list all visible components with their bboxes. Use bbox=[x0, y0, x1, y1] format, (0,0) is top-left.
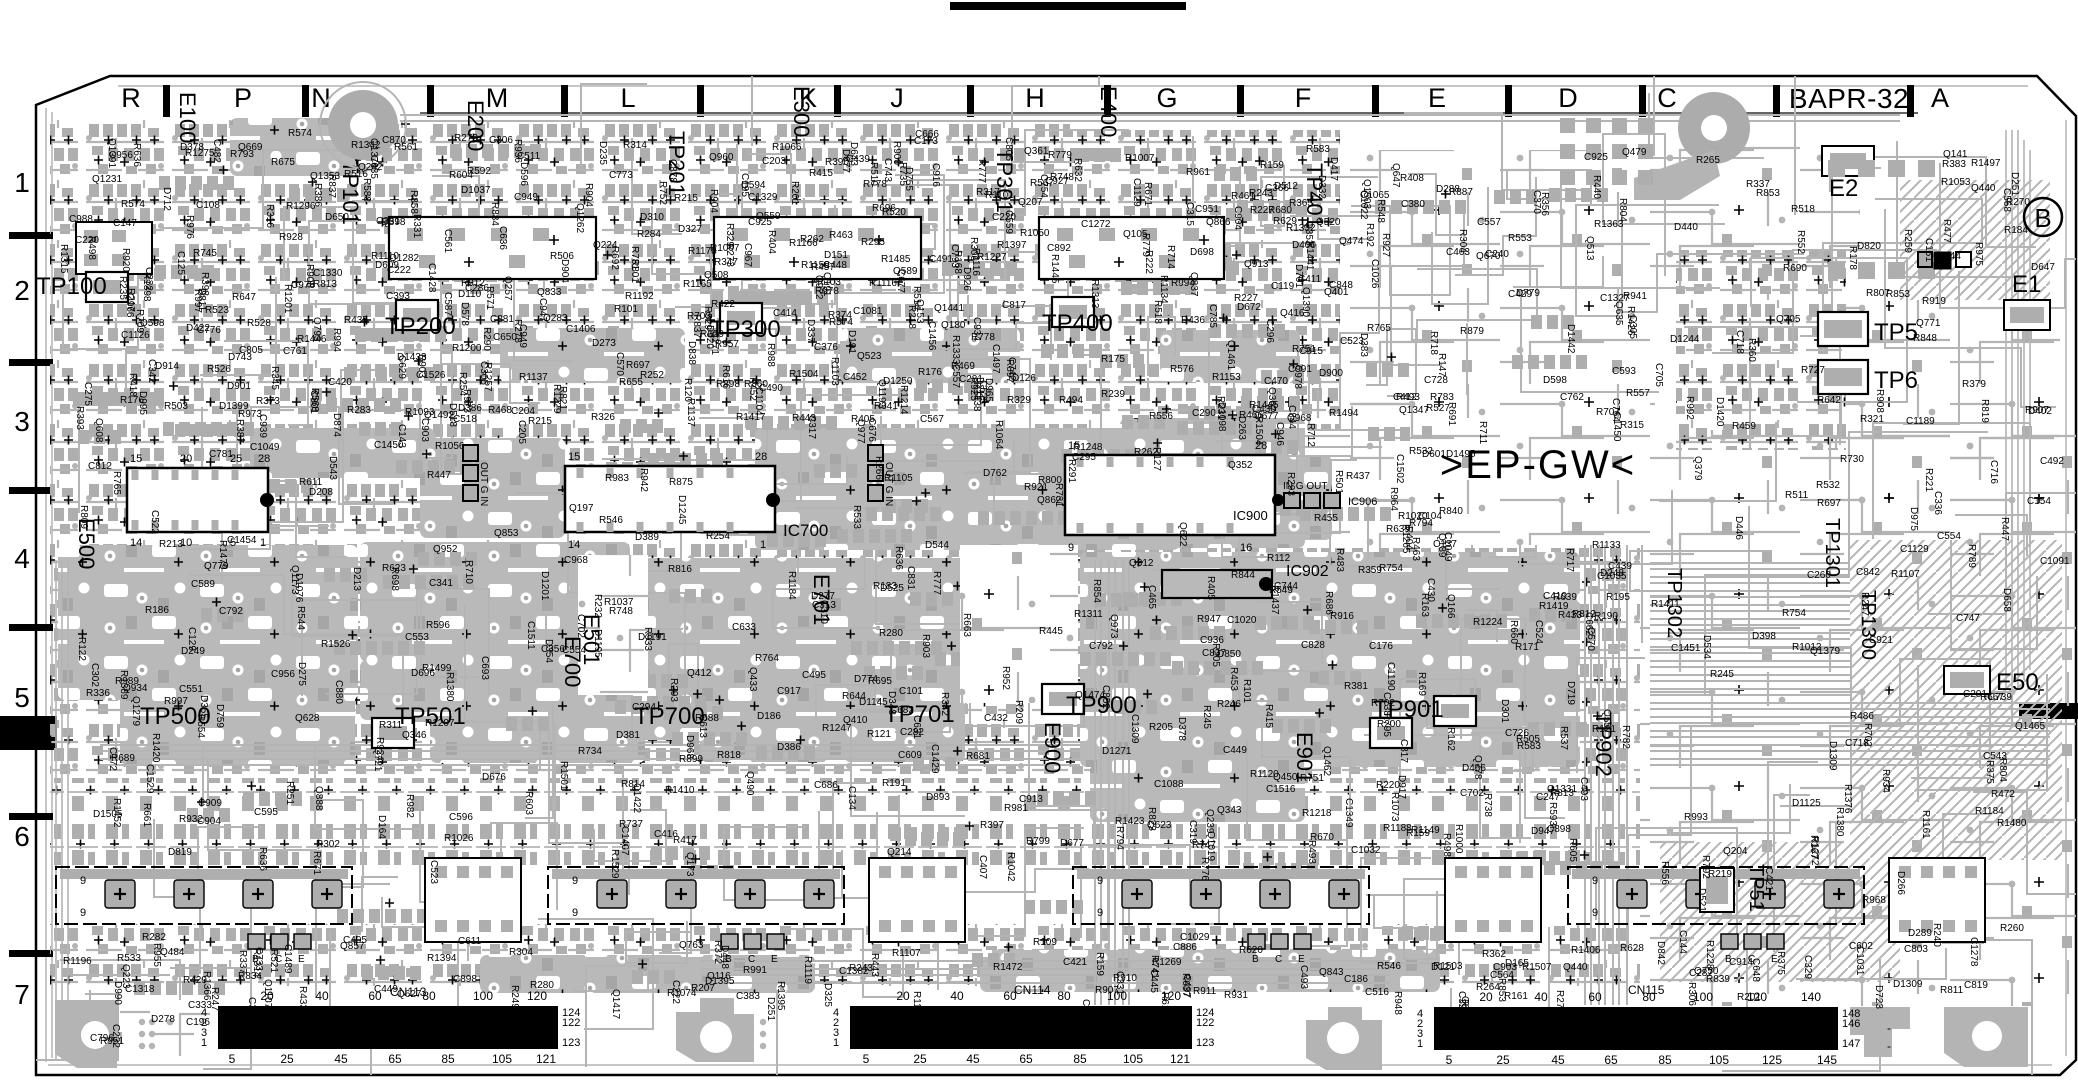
svg-text:R574: R574 bbox=[288, 128, 312, 139]
svg-text:R556: R556 bbox=[1149, 411, 1173, 422]
svg-text:R259: R259 bbox=[1902, 229, 1913, 253]
svg-text:R928: R928 bbox=[279, 232, 303, 243]
svg-text:C1309: C1309 bbox=[1129, 714, 1140, 744]
svg-text:R1452: R1452 bbox=[111, 798, 122, 828]
svg-text:R1134: R1134 bbox=[1158, 275, 1169, 304]
svg-text:D990: D990 bbox=[112, 981, 123, 1005]
svg-text:R374: R374 bbox=[828, 310, 852, 321]
svg-text:C518: C518 bbox=[453, 414, 477, 425]
svg-text:R714: R714 bbox=[1165, 245, 1176, 269]
svg-text:Q763: Q763 bbox=[679, 940, 704, 951]
svg-text:D534: D534 bbox=[1701, 635, 1712, 659]
svg-text:R282: R282 bbox=[142, 932, 166, 943]
svg-text:R1201: R1201 bbox=[282, 284, 293, 314]
svg-text:125: 125 bbox=[1762, 1053, 1782, 1067]
svg-text:R477: R477 bbox=[1941, 219, 1952, 243]
svg-text:C1065: C1065 bbox=[1360, 190, 1390, 201]
svg-text:C554: C554 bbox=[562, 645, 586, 656]
svg-text:D1245: D1245 bbox=[676, 495, 687, 525]
svg-text:C493: C493 bbox=[1578, 777, 1589, 801]
test point TP5 bbox=[1818, 312, 1868, 346]
svg-text:R819: R819 bbox=[1979, 399, 1990, 423]
svg-text:R1497: R1497 bbox=[1971, 158, 2001, 169]
svg-text:C108: C108 bbox=[196, 200, 220, 211]
svg-text:Q622: Q622 bbox=[1177, 522, 1188, 547]
svg-text:C380: C380 bbox=[1401, 199, 1425, 210]
svg-text:C296: C296 bbox=[1264, 319, 1275, 343]
svg-text:Q312: Q312 bbox=[1129, 558, 1154, 569]
svg-text:C702: C702 bbox=[1460, 788, 1484, 799]
svg-text:C848: C848 bbox=[1329, 280, 1353, 291]
svg-text:D1076: D1076 bbox=[293, 573, 304, 603]
svg-text:R375: R375 bbox=[1984, 760, 1995, 784]
svg-text:C793: C793 bbox=[949, 244, 960, 268]
svg-text:R1119: R1119 bbox=[802, 956, 813, 984]
svg-text:C988: C988 bbox=[69, 214, 93, 225]
svg-text:R190: R190 bbox=[1594, 611, 1618, 622]
svg-text:C914: C914 bbox=[1729, 957, 1753, 968]
svg-text:R493: R493 bbox=[1306, 840, 1317, 864]
svg-text:R260: R260 bbox=[2000, 923, 2024, 934]
test point TP400 bbox=[1052, 297, 1094, 327]
svg-text:C812: C812 bbox=[88, 461, 112, 472]
svg-text:C1091: C1091 bbox=[2040, 556, 2070, 567]
svg-text:C201: C201 bbox=[1963, 689, 1987, 700]
svg-text:R1064: R1064 bbox=[993, 420, 1004, 450]
svg-text:R418: R418 bbox=[127, 373, 138, 397]
svg-text:R1000: R1000 bbox=[1453, 824, 1464, 854]
pad array top D area bbox=[1560, 118, 1575, 133]
svg-text:20: 20 bbox=[180, 453, 192, 465]
svg-text:C137: C137 bbox=[1433, 539, 1457, 550]
svg-text:C596: C596 bbox=[449, 812, 473, 823]
svg-text:R799: R799 bbox=[1026, 836, 1050, 847]
svg-text:Q490: Q490 bbox=[744, 771, 755, 796]
svg-text:Q105: Q105 bbox=[1123, 229, 1148, 240]
mounting hole top right bbox=[1678, 92, 1750, 164]
svg-text:R415: R415 bbox=[1263, 704, 1274, 728]
svg-text:R1192: R1192 bbox=[625, 291, 654, 302]
svg-text:R751: R751 bbox=[1292, 344, 1316, 355]
svg-text:D598: D598 bbox=[1543, 375, 1567, 386]
svg-text:R839: R839 bbox=[1706, 974, 1730, 985]
svg-text:R908: R908 bbox=[1874, 389, 1885, 413]
svg-text:C203: C203 bbox=[762, 156, 786, 167]
svg-text:R345: R345 bbox=[269, 366, 280, 390]
svg-text:40: 40 bbox=[1534, 990, 1548, 1004]
svg-text:M: M bbox=[486, 83, 509, 113]
svg-text:R994: R994 bbox=[1171, 278, 1195, 289]
svg-text:C648: C648 bbox=[1750, 958, 1761, 982]
svg-text:R879: R879 bbox=[1460, 326, 1484, 337]
svg-text:R942: R942 bbox=[638, 468, 649, 492]
svg-text:D337: D337 bbox=[805, 319, 816, 343]
svg-text:D446: D446 bbox=[1733, 516, 1744, 540]
svg-text:C1278: C1278 bbox=[1968, 937, 1979, 967]
svg-text:C1489: C1489 bbox=[282, 944, 293, 974]
svg-text:C898: C898 bbox=[1547, 824, 1571, 835]
svg-text:C176: C176 bbox=[1369, 641, 1393, 652]
svg-text:Q224: Q224 bbox=[593, 240, 618, 251]
svg-text:R903: R903 bbox=[920, 634, 931, 658]
right edge tab bbox=[2019, 703, 2078, 719]
svg-text:R101: R101 bbox=[1241, 679, 1252, 703]
svg-text:R981: R981 bbox=[1004, 803, 1028, 814]
svg-text:C445: C445 bbox=[1148, 969, 1159, 993]
svg-text:C119: C119 bbox=[1271, 281, 1295, 292]
svg-text:C516: C516 bbox=[1365, 987, 1389, 998]
svg-text:R1315: R1315 bbox=[58, 244, 69, 274]
svg-text:D900: D900 bbox=[1319, 368, 1343, 379]
svg-text:R1107: R1107 bbox=[892, 948, 921, 959]
svg-text:R533: R533 bbox=[851, 505, 862, 529]
svg-text:R952: R952 bbox=[1000, 666, 1011, 690]
svg-text:C1511: C1511 bbox=[525, 621, 536, 650]
svg-text:R501: R501 bbox=[1333, 470, 1344, 494]
top bus line bbox=[420, 112, 1918, 114]
svg-text:R1342: R1342 bbox=[351, 140, 381, 151]
svg-text:R1275: R1275 bbox=[185, 148, 215, 159]
svg-text:D712: D712 bbox=[161, 187, 172, 211]
svg-text:D1125: D1125 bbox=[1792, 798, 1821, 809]
svg-text:R751: R751 bbox=[1300, 773, 1324, 784]
svg-text:R973: R973 bbox=[461, 389, 472, 413]
svg-text:R807: R807 bbox=[1866, 288, 1890, 299]
svg-text:E: E bbox=[1298, 954, 1305, 965]
svg-text:C317: C317 bbox=[1398, 739, 1409, 763]
svg-text:Q888: Q888 bbox=[313, 786, 324, 811]
svg-text:1: 1 bbox=[14, 167, 30, 198]
svg-text:C1429: C1429 bbox=[929, 744, 940, 774]
svg-text:D354: D354 bbox=[543, 639, 554, 663]
svg-text:9: 9 bbox=[1068, 542, 1074, 554]
svg-text:C205: C205 bbox=[516, 420, 527, 444]
svg-text:105: 105 bbox=[492, 1052, 512, 1066]
svg-text:D914: D914 bbox=[155, 361, 179, 372]
svg-text:R245: R245 bbox=[1201, 705, 1212, 729]
svg-text:Q771: Q771 bbox=[1916, 318, 1941, 329]
svg-text:R1313: R1313 bbox=[1089, 279, 1100, 309]
svg-text:R1214: R1214 bbox=[898, 385, 909, 415]
svg-text:Q1417: Q1417 bbox=[610, 989, 621, 1019]
svg-text:R647: R647 bbox=[232, 292, 256, 303]
svg-text:C1129: C1129 bbox=[1900, 544, 1929, 555]
svg-text:1: 1 bbox=[260, 537, 266, 549]
svg-text:D440: D440 bbox=[1674, 222, 1698, 233]
svg-text:Q346: Q346 bbox=[402, 730, 427, 741]
svg-text:R1380: R1380 bbox=[444, 672, 455, 702]
svg-text:R712: R712 bbox=[1305, 423, 1316, 447]
svg-text:C1428: C1428 bbox=[426, 263, 437, 293]
svg-text:Q1019: Q1019 bbox=[1205, 831, 1216, 861]
svg-text:C792: C792 bbox=[219, 606, 243, 617]
svg-text:C315: C315 bbox=[1184, 202, 1195, 226]
svg-text:D544: D544 bbox=[925, 540, 949, 551]
svg-text:C341: C341 bbox=[429, 578, 453, 589]
svg-text:R660: R660 bbox=[1508, 620, 1519, 644]
svg-text:D301: D301 bbox=[1499, 699, 1510, 723]
svg-text:R1153: R1153 bbox=[1212, 372, 1241, 383]
svg-text:D332: D332 bbox=[1316, 175, 1327, 199]
svg-text:R315: R315 bbox=[1620, 420, 1644, 431]
svg-text:C302: C302 bbox=[89, 663, 100, 687]
svg-text:C682: C682 bbox=[890, 705, 914, 716]
svg-text:C: C bbox=[1657, 83, 1677, 113]
svg-text:C522: C522 bbox=[149, 510, 160, 534]
svg-text:R186: R186 bbox=[145, 605, 169, 616]
svg-text:R934: R934 bbox=[1880, 769, 1891, 793]
svg-text:R1149: R1149 bbox=[1411, 825, 1440, 836]
svg-text:R373: R373 bbox=[256, 396, 280, 407]
svg-text:R618: R618 bbox=[1159, 992, 1170, 1016]
svg-text:15: 15 bbox=[568, 451, 580, 463]
svg-text:C1088: C1088 bbox=[1154, 779, 1184, 790]
svg-text:C421: C421 bbox=[1063, 957, 1087, 968]
svg-text:R553: R553 bbox=[1508, 233, 1532, 244]
svg-text:C554: C554 bbox=[1937, 531, 1961, 542]
svg-text:R988: R988 bbox=[765, 343, 776, 367]
svg-text:C916: C916 bbox=[930, 163, 941, 187]
svg-text:R628: R628 bbox=[1620, 943, 1644, 954]
svg-text:C240: C240 bbox=[1485, 249, 1509, 260]
svg-text:65: 65 bbox=[1604, 1053, 1618, 1067]
svg-text:R1501: R1501 bbox=[558, 761, 569, 791]
svg-text:C1026: C1026 bbox=[1369, 259, 1380, 289]
svg-text:C383: C383 bbox=[736, 991, 760, 1002]
svg-text:R858: R858 bbox=[408, 190, 419, 214]
svg-text:C232: C232 bbox=[143, 267, 154, 291]
svg-text:R675: R675 bbox=[271, 157, 295, 168]
svg-text:IC700: IC700 bbox=[783, 521, 828, 540]
circuit texture fields bbox=[50, 118, 670, 430]
svg-text:Q1279: Q1279 bbox=[130, 696, 141, 726]
svg-text:R447: R447 bbox=[427, 470, 451, 481]
svg-text:R1196: R1196 bbox=[63, 956, 92, 967]
svg-text:D417: D417 bbox=[1328, 157, 1339, 181]
svg-text:R777: R777 bbox=[931, 571, 942, 595]
svg-text:C1516: C1516 bbox=[1266, 784, 1296, 795]
svg-text:R840: R840 bbox=[1439, 506, 1463, 517]
svg-text:D698: D698 bbox=[1190, 247, 1214, 258]
svg-text:R317: R317 bbox=[976, 187, 1000, 198]
svg-text:R568: R568 bbox=[309, 388, 320, 412]
svg-text:C275: C275 bbox=[82, 382, 93, 406]
svg-text:C741: C741 bbox=[1080, 999, 1091, 1023]
svg-text:Q352: Q352 bbox=[1228, 460, 1253, 471]
svg-text:C852: C852 bbox=[1100, 685, 1111, 709]
svg-text:R127: R127 bbox=[1151, 447, 1162, 471]
svg-text:R362: R362 bbox=[1482, 949, 1506, 960]
svg-text:C956: C956 bbox=[271, 669, 295, 680]
svg-text:R1093: R1093 bbox=[405, 407, 435, 418]
svg-text:D672: D672 bbox=[1237, 302, 1261, 313]
svg-text:R1272: R1272 bbox=[1809, 836, 1820, 866]
svg-text:D383: D383 bbox=[1358, 333, 1369, 357]
svg-text:C1497: C1497 bbox=[990, 344, 1001, 374]
svg-text:C773: C773 bbox=[609, 170, 633, 181]
svg-text:R453: R453 bbox=[1228, 667, 1239, 691]
test point TP6 bbox=[1818, 360, 1868, 394]
svg-text:N: N bbox=[311, 83, 331, 113]
svg-text:C909: C909 bbox=[198, 798, 222, 809]
svg-text:Q343: Q343 bbox=[1217, 805, 1242, 816]
svg-text:C831: C831 bbox=[905, 566, 916, 590]
svg-text:R1410: R1410 bbox=[665, 785, 695, 796]
IC900 outline bbox=[1065, 455, 1275, 535]
svg-text:4: 4 bbox=[14, 543, 30, 574]
svg-text:D1420: D1420 bbox=[1714, 397, 1725, 427]
relay RY100 bbox=[76, 222, 152, 274]
svg-text:C792: C792 bbox=[1089, 641, 1113, 652]
svg-text:C1330: C1330 bbox=[313, 268, 343, 279]
svg-text:Q866: Q866 bbox=[1206, 217, 1231, 228]
svg-text:R813: R813 bbox=[313, 279, 337, 290]
svg-text:R567: R567 bbox=[1030, 178, 1054, 189]
svg-text:C762: C762 bbox=[1560, 392, 1584, 403]
svg-text:R837: R837 bbox=[326, 174, 337, 198]
svg-text:R605: R605 bbox=[1567, 838, 1578, 862]
svg-text:R583: R583 bbox=[1306, 144, 1330, 155]
svg-text:D1195: D1195 bbox=[592, 629, 603, 658]
svg-text:R221: R221 bbox=[1923, 468, 1934, 492]
svg-text:R191: R191 bbox=[882, 778, 906, 789]
svg-text:R246: R246 bbox=[1217, 699, 1241, 710]
svg-text:R583: R583 bbox=[1517, 741, 1541, 752]
svg-text:R912: R912 bbox=[461, 278, 485, 289]
svg-text:C718: C718 bbox=[1734, 330, 1745, 354]
svg-text:A: A bbox=[1931, 83, 1949, 113]
svg-text:R920: R920 bbox=[120, 248, 131, 272]
revision mark B bbox=[2024, 198, 2062, 236]
svg-text:R811: R811 bbox=[1940, 985, 1964, 996]
svg-text:C1406: C1406 bbox=[566, 324, 596, 335]
svg-text:L: L bbox=[620, 83, 635, 113]
svg-text:R690: R690 bbox=[1783, 263, 1807, 274]
svg-text:R472: R472 bbox=[1991, 789, 2015, 800]
svg-text:R884: R884 bbox=[489, 202, 500, 226]
svg-text:R311: R311 bbox=[379, 720, 403, 731]
svg-text:R718: R718 bbox=[1428, 331, 1439, 355]
svg-text:C726: C726 bbox=[1505, 728, 1529, 739]
svg-text:C978: C978 bbox=[1292, 365, 1303, 389]
svg-text:R405: R405 bbox=[851, 414, 875, 425]
component clusters bbox=[73, 130, 1619, 995]
svg-text:C1451: C1451 bbox=[1671, 643, 1701, 654]
svg-text:85: 85 bbox=[1658, 1053, 1672, 1067]
svg-text:R215: R215 bbox=[674, 193, 698, 204]
fiducial block right bbox=[1934, 252, 1951, 269]
svg-text:R347: R347 bbox=[714, 257, 738, 268]
svg-text:D650: D650 bbox=[325, 212, 349, 223]
svg-text:Q379: Q379 bbox=[1692, 456, 1703, 481]
svg-text:R433: R433 bbox=[1558, 610, 1582, 621]
svg-text:R463: R463 bbox=[1410, 537, 1421, 561]
svg-text:D398: D398 bbox=[1752, 631, 1776, 642]
svg-text:R503: R503 bbox=[164, 401, 188, 412]
svg-text:C886: C886 bbox=[1173, 942, 1197, 953]
svg-text:R443: R443 bbox=[869, 953, 880, 977]
svg-text:C595: C595 bbox=[254, 807, 278, 818]
svg-text:D1201: D1201 bbox=[539, 571, 550, 601]
svg-text:R429: R429 bbox=[183, 975, 207, 986]
svg-text:R616: R616 bbox=[720, 365, 731, 389]
svg-text:140: 140 bbox=[1801, 990, 1821, 1004]
svg-text:R405: R405 bbox=[1205, 576, 1216, 600]
svg-text:R326: R326 bbox=[591, 412, 615, 423]
svg-text:R632: R632 bbox=[1072, 158, 1083, 182]
svg-text:R523: R523 bbox=[205, 305, 229, 316]
svg-text:C570: C570 bbox=[614, 352, 625, 376]
svg-text:R604: R604 bbox=[449, 170, 473, 181]
svg-text:R991: R991 bbox=[743, 965, 767, 976]
svg-text:C1450: C1450 bbox=[374, 440, 404, 451]
svg-text:C524: C524 bbox=[1533, 620, 1544, 644]
svg-text:R169: R169 bbox=[1416, 672, 1427, 696]
svg-text:R1445: R1445 bbox=[1049, 254, 1060, 284]
svg-text:C414: C414 bbox=[773, 308, 797, 319]
svg-text:R1494: R1494 bbox=[1329, 408, 1359, 419]
svg-text:R964: R964 bbox=[1388, 487, 1399, 511]
svg-text:R903: R903 bbox=[416, 354, 427, 378]
svg-text:R556: R556 bbox=[1659, 861, 1670, 885]
svg-text:R215: R215 bbox=[528, 416, 552, 427]
svg-text:14: 14 bbox=[568, 539, 580, 551]
svg-text:Q853: Q853 bbox=[494, 528, 519, 539]
svg-text:R636: R636 bbox=[131, 143, 142, 167]
svg-text:R397: R397 bbox=[980, 820, 1004, 831]
svg-text:CN115: CN115 bbox=[1628, 983, 1665, 997]
svg-text:R381: R381 bbox=[1344, 681, 1368, 692]
svg-text:C743: C743 bbox=[882, 158, 893, 182]
svg-text:C903: C903 bbox=[419, 418, 430, 442]
svg-text:R544: R544 bbox=[295, 606, 306, 630]
svg-text:R671: R671 bbox=[311, 851, 322, 875]
svg-text:R239: R239 bbox=[1101, 389, 1125, 400]
svg-text:R689: R689 bbox=[111, 753, 135, 764]
svg-text:105: 105 bbox=[1123, 1052, 1143, 1066]
svg-text:BAPR-32: BAPR-32 bbox=[1789, 83, 1909, 114]
relay RY702 bbox=[1445, 858, 1541, 942]
svg-text:Q1441: Q1441 bbox=[934, 303, 964, 314]
svg-text:R671: R671 bbox=[1142, 182, 1153, 206]
svg-text:E: E bbox=[1428, 83, 1446, 113]
svg-text:D658: D658 bbox=[2001, 588, 2012, 612]
svg-text:D448: D448 bbox=[719, 945, 730, 969]
svg-text:C956: C956 bbox=[109, 150, 133, 161]
svg-text:C493: C493 bbox=[1298, 965, 1309, 989]
svg-text:R620: R620 bbox=[1239, 945, 1263, 956]
svg-text:R552: R552 bbox=[1795, 230, 1806, 254]
svg-text:C613: C613 bbox=[697, 714, 708, 738]
svg-text:Q684: Q684 bbox=[1459, 996, 1470, 1021]
svg-text:9: 9 bbox=[1592, 875, 1598, 887]
svg-text:9: 9 bbox=[1592, 907, 1598, 919]
svg-text:R1207: R1207 bbox=[425, 718, 455, 729]
svg-text:C587: C587 bbox=[442, 292, 453, 316]
svg-text:R782: R782 bbox=[1620, 725, 1631, 749]
svg-text:60: 60 bbox=[1588, 990, 1602, 1004]
svg-text:C495: C495 bbox=[802, 670, 826, 681]
svg-text:D213: D213 bbox=[351, 567, 362, 591]
svg-text:R623: R623 bbox=[382, 563, 406, 574]
svg-text:28: 28 bbox=[258, 453, 270, 465]
svg-text:R1504: R1504 bbox=[1253, 416, 1264, 446]
svg-text:R252: R252 bbox=[640, 370, 664, 381]
svg-text:Q173: Q173 bbox=[684, 852, 695, 877]
svg-text:Q367: Q367 bbox=[1266, 387, 1277, 412]
svg-text:80: 80 bbox=[1057, 989, 1071, 1003]
svg-text:TP100: TP100 bbox=[36, 273, 107, 300]
